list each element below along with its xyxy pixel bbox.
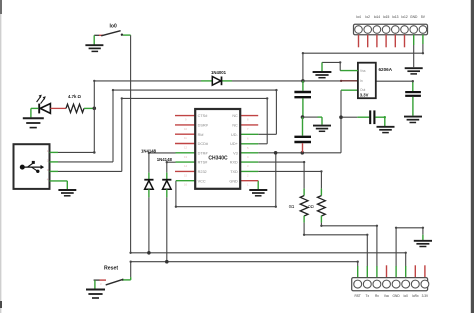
svg-text:DSR#: DSR# [198,124,209,128]
wire J1 GND pin to ground [413,45,415,67]
resistor R3 0ohm [308,189,325,223]
svg-text:Reset: Reset [104,265,118,271]
diode D2 1N4148 [141,149,176,253]
node junction V3/VCC [274,151,278,155]
svg-text:0Ω: 0Ω [308,204,313,209]
node junction D3/line2 [165,260,169,264]
svg-text:TXD: TXD [230,170,238,174]
USB connector J3 [14,144,68,189]
svg-text:GND: GND [229,179,238,183]
svg-text:NC: NC [232,124,238,128]
svg-text:Io4: Io4 [356,15,361,19]
svg-text:1N4148: 1N4148 [157,157,173,162]
capacitor C3 (input, upper) [294,81,311,117]
svg-text:Vcc: Vcc [384,294,390,298]
switch S2 Reset [94,265,131,288]
wire V3 rail [258,90,358,153]
svg-text:Vss: Vss [360,69,366,73]
svg-text:V3: V3 [233,151,238,155]
ground under Io0 switch [85,45,103,51]
svg-text:15: 15 [184,173,187,177]
ground under LED [23,118,44,127]
svg-text:10: 10 [184,127,187,131]
svg-text:NC: NC [232,114,238,118]
capacitor C2 (output, horizontal) [342,110,386,126]
svg-text:6206A: 6206A [379,67,393,72]
svg-text:3.3V: 3.3V [422,294,429,298]
svg-text:CH340C: CH340C [208,156,228,162]
wire VBUS rail [93,80,303,153]
svg-text:GND: GND [393,294,401,298]
window right scrollbar edge [471,0,474,313]
wire USB pin2 D- [58,89,278,162]
svg-text:RST: RST [355,294,361,298]
node junction LED/USB/5V [93,107,97,111]
svg-text:Tx: Tx [366,294,370,298]
wire line1 Io0 net [129,252,407,267]
wire USB pin3 D+ [58,97,268,171]
svg-text:RI#: RI# [198,133,205,137]
wire R3 to header Rx [320,223,378,267]
wire RXD to R2 [258,161,305,189]
svg-text:UD+: UD+ [230,142,238,146]
svg-text:UD-: UD- [231,133,238,137]
svg-text:12: 12 [184,146,187,150]
diode D1 1N4001 [211,70,227,85]
svg-text:IoRx: IoRx [412,294,419,298]
resistor R1 4.7k [66,94,93,113]
svg-text:14: 14 [184,164,187,168]
ground above J2 [414,241,432,247]
svg-text:GND: GND [410,15,418,19]
svg-text:RXD: RXD [230,161,238,165]
resistor R2 0ohm [289,189,308,223]
ground left of regulator [313,72,332,78]
wire J2 GND to ground [395,227,424,267]
svg-text:R232: R232 [198,170,207,174]
svg-text:Io14: Io14 [374,15,381,19]
ground under Reset [86,290,105,299]
diode D3 1N4148 [157,157,176,262]
svg-text:Io15: Io15 [383,15,390,19]
regulator U2 6206A [358,63,393,98]
wire TXD to R3 [258,170,322,188]
node junction D2/line1 [147,251,151,255]
svg-text:13: 13 [184,155,187,159]
wire LED anode red [50,107,66,109]
IC U1 CH340C [175,109,258,189]
svg-text:DTR#: DTR# [198,151,209,155]
wire GND pin to ground (red) [257,181,259,189]
ground under C2 [377,127,395,133]
switch S1 Io0 [94,24,130,45]
wire USB pin4 to ground [66,181,68,189]
svg-text:0Ω: 0Ω [289,204,294,209]
wire VCC return (IC VCC to V3 rail) [175,153,277,208]
node junction Out/C2 [339,115,343,119]
wire junction to ground stub [303,117,323,125]
wire Vss to ground [322,61,358,71]
svg-text:16: 16 [184,183,187,187]
svg-text:Io0: Io0 [110,24,117,30]
svg-text:RTS#: RTS# [198,161,209,165]
LED D4 [31,95,51,118]
wire Io0 vertical [130,35,132,253]
capacitor C4 (lower) [294,117,311,152]
ground under C1 [404,117,422,123]
wire USB pin1 VBUS [58,151,96,154]
svg-text:Io2: Io2 [365,15,370,19]
wire line2 RST net [130,261,359,278]
wire 5V top rail [302,44,424,81]
window left edge [0,0,2,313]
svg-text:VCC: VCC [198,179,206,183]
svg-text:Rx: Rx [375,294,379,298]
svg-text:Io12: Io12 [401,15,408,19]
ground under IC [249,190,267,196]
wire R2 to header Tx [303,223,369,267]
ground under J1 pin7 [405,68,423,74]
header J1 top [354,15,428,47]
node junction 5V/VBUS/C3/In [301,79,305,83]
node junction C3/C4/gnd [301,115,305,119]
svg-text:Io13: Io13 [392,15,399,19]
svg-text:4.7k Ω: 4.7k Ω [68,94,82,99]
svg-text:1N4001: 1N4001 [211,70,227,75]
header J2 bottom [352,265,429,298]
svg-text:In: In [360,79,363,83]
svg-text:CTS#: CTS# [198,114,209,118]
svg-text:DCD#: DCD# [198,142,209,146]
svg-text:3.3V: 3.3V [360,92,369,97]
ground under USB [58,190,76,196]
node junction V3/C4 [301,151,305,155]
capacitor C1 (input right) [405,92,421,116]
wire In rail to regulator and C1 [303,80,414,91]
ground mid (C3/C4) [313,126,331,132]
svg-text:Io0: Io0 [403,294,408,298]
